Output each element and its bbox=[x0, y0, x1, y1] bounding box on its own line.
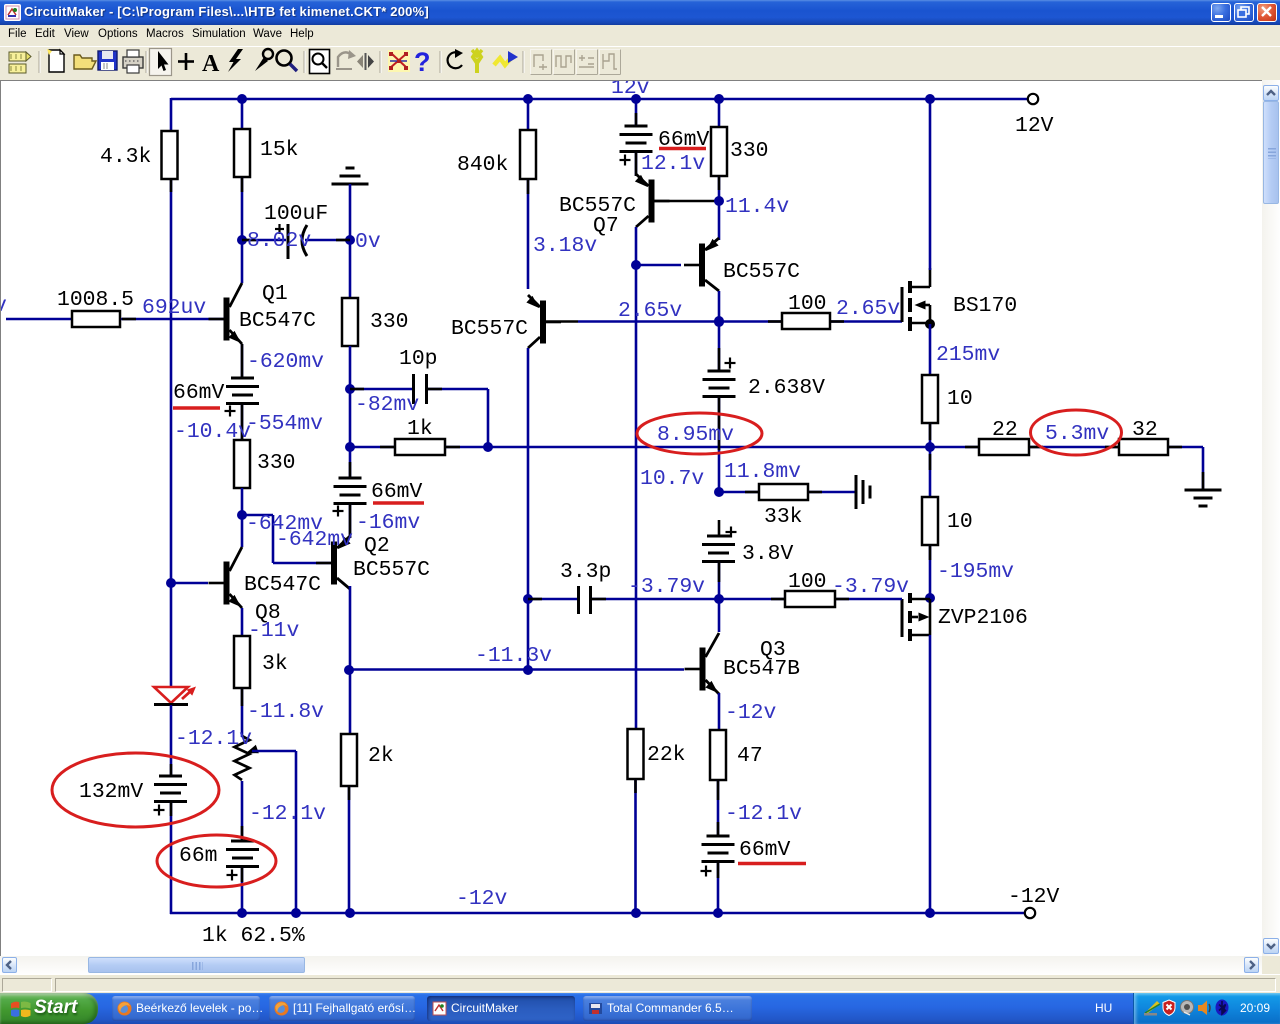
svg-text:-3.79v: -3.79v bbox=[628, 575, 705, 599]
svg-text:692uv: 692uv bbox=[142, 296, 206, 320]
svg-text:22: 22 bbox=[992, 418, 1018, 442]
svg-text:-12.1v: -12.1v bbox=[175, 727, 252, 751]
svg-text:BS170: BS170 bbox=[953, 294, 1017, 318]
svg-text:-12V: -12V bbox=[1008, 885, 1060, 909]
svg-text:BC547C: BC547C bbox=[239, 309, 316, 333]
svg-text:100uF: 100uF bbox=[264, 202, 328, 226]
svg-text:0v: 0v bbox=[355, 230, 381, 254]
svg-text:4.3k: 4.3k bbox=[100, 145, 151, 169]
svg-text:330: 330 bbox=[370, 310, 409, 334]
svg-text:-12.1v: -12.1v bbox=[725, 802, 802, 826]
svg-text:2k: 2k bbox=[368, 744, 394, 768]
svg-text:3.18v: 3.18v bbox=[533, 234, 597, 258]
svg-text:Q1: Q1 bbox=[262, 282, 288, 306]
svg-text:10.7v: 10.7v bbox=[640, 467, 704, 491]
svg-text:-642mv: -642mv bbox=[276, 528, 353, 552]
svg-text:3.3p: 3.3p bbox=[560, 560, 611, 584]
svg-text:33k: 33k bbox=[764, 505, 803, 529]
svg-text:66mV: 66mV bbox=[371, 480, 423, 504]
svg-text:-11v: -11v bbox=[248, 619, 300, 643]
svg-text:-12.1v: -12.1v bbox=[249, 802, 326, 826]
svg-text:BC557C: BC557C bbox=[723, 260, 800, 284]
svg-text:10: 10 bbox=[947, 510, 973, 534]
svg-text:BC557C: BC557C bbox=[451, 317, 528, 341]
svg-text:-620mv: -620mv bbox=[247, 350, 324, 374]
svg-text:-11.8v: -11.8v bbox=[247, 700, 324, 724]
svg-text:?: ? bbox=[414, 47, 431, 77]
svg-text:-195mv: -195mv bbox=[937, 560, 1014, 584]
svg-text:132mV: 132mV bbox=[79, 780, 143, 804]
svg-text:-12v: -12v bbox=[725, 701, 777, 725]
svg-text:-12v: -12v bbox=[456, 887, 508, 911]
svg-text:330: 330 bbox=[257, 451, 296, 475]
svg-text:1k: 1k bbox=[407, 417, 433, 441]
svg-text:-3.79v: -3.79v bbox=[832, 575, 909, 599]
svg-text:10p: 10p bbox=[399, 347, 438, 371]
svg-text:66m: 66m bbox=[179, 844, 218, 868]
svg-text:15k: 15k bbox=[260, 138, 299, 162]
svg-text:32: 32 bbox=[1132, 418, 1158, 442]
svg-text:215mv: 215mv bbox=[936, 343, 1000, 367]
svg-text:v: v bbox=[1, 294, 7, 318]
svg-text:10: 10 bbox=[947, 387, 973, 411]
svg-text:BC547B: BC547B bbox=[723, 657, 800, 681]
svg-text:11.4v: 11.4v bbox=[725, 195, 789, 219]
svg-text:-11.3v: -11.3v bbox=[475, 644, 552, 668]
svg-text:3.8V: 3.8V bbox=[742, 542, 794, 566]
svg-text:Q2: Q2 bbox=[364, 534, 390, 558]
svg-text:5.3mv: 5.3mv bbox=[1045, 422, 1109, 446]
svg-text:1008.5: 1008.5 bbox=[57, 288, 134, 312]
svg-text:47: 47 bbox=[737, 744, 763, 768]
svg-text:2.65v: 2.65v bbox=[836, 297, 900, 321]
svg-text:1k 62.5%: 1k 62.5% bbox=[202, 924, 305, 948]
svg-text:12.1v: 12.1v bbox=[641, 152, 705, 176]
svg-text:840k: 840k bbox=[457, 153, 508, 177]
svg-text:2.65v: 2.65v bbox=[618, 299, 682, 323]
svg-text:3k: 3k bbox=[262, 652, 288, 676]
svg-text:-82mv: -82mv bbox=[355, 393, 419, 417]
svg-text:66mV: 66mV bbox=[658, 128, 710, 152]
svg-text:BC547C: BC547C bbox=[244, 573, 321, 597]
svg-text:11.8mv: 11.8mv bbox=[724, 460, 801, 484]
svg-text:100: 100 bbox=[788, 292, 827, 316]
svg-text:8.95mv: 8.95mv bbox=[657, 423, 734, 447]
svg-text:100: 100 bbox=[788, 570, 827, 594]
svg-text:66mV: 66mV bbox=[173, 381, 225, 405]
svg-text:8.02v: 8.02v bbox=[247, 229, 311, 253]
svg-text:22k: 22k bbox=[647, 743, 686, 767]
svg-text:BC557C: BC557C bbox=[353, 558, 430, 582]
svg-text:-10.4v: -10.4v bbox=[174, 420, 251, 444]
svg-text:-554mv: -554mv bbox=[246, 412, 323, 436]
svg-text:330: 330 bbox=[730, 139, 769, 163]
svg-text:-16mv: -16mv bbox=[356, 511, 420, 535]
svg-text:66mV: 66mV bbox=[739, 838, 791, 862]
svg-text:12V: 12V bbox=[1015, 114, 1054, 138]
svg-text:2.638V: 2.638V bbox=[748, 376, 825, 400]
svg-text:ZVP2106: ZVP2106 bbox=[938, 606, 1028, 630]
svg-text:12v: 12v bbox=[611, 81, 650, 100]
svg-text:A: A bbox=[202, 51, 220, 77]
